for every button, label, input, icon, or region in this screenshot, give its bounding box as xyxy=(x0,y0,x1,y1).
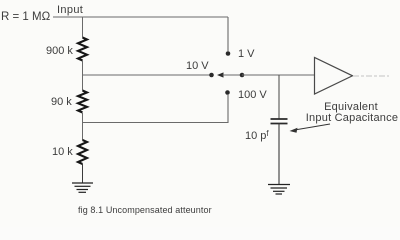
node: 100V switch contact xyxy=(225,90,230,95)
svg-text:10 k: 10 k xyxy=(52,146,73,158)
svg-text:fig 8.1 Uncompensated atteunto: fig 8.1 Uncompensated atteuntor xyxy=(78,205,212,215)
wire: pole to op-amp input xyxy=(242,74,314,76)
svg-text:10 pf: 10 pf xyxy=(245,129,269,142)
wire: 90k bottom to 100V tap junction xyxy=(82,113,84,140)
wire: 900k bottom to 10V tap junction xyxy=(82,61,84,91)
annotation arrow to capacitor xyxy=(293,124,330,130)
svg-text:900 k: 900 k xyxy=(46,45,73,57)
svg-text:90 k: 90 k xyxy=(51,96,72,108)
wire: 10k bottom to ground xyxy=(82,164,84,183)
switch wiper arrow (points to 10V contact) xyxy=(217,72,224,77)
wire: vertical drop to 1V contact xyxy=(227,17,229,51)
svg-text:1 V: 1 V xyxy=(238,48,255,60)
svg-text:10 V: 10 V xyxy=(186,60,209,72)
node: input junction drop to 900k xyxy=(82,17,84,38)
svg-text:R = 1 MΩ: R = 1 MΩ xyxy=(1,11,51,23)
wire: op-amp output (faint dashed) xyxy=(353,75,389,77)
svg-text:Input Capacitance: Input Capacitance xyxy=(306,112,398,124)
wire: 10V tap horizontal to switch contact xyxy=(83,74,211,76)
resistor 10k xyxy=(78,140,87,164)
wire: 100V tap horizontal xyxy=(83,95,229,123)
resistor 900k xyxy=(78,38,87,61)
wire: capacitor bottom to ground xyxy=(278,124,280,185)
node: wiper pole xyxy=(240,73,245,78)
node: 10V switch contact xyxy=(209,73,214,78)
capacitor C (10 pf) xyxy=(271,119,288,124)
wire: branch down to capacitor xyxy=(278,75,280,119)
svg-text:Input: Input xyxy=(57,4,83,16)
ground (left) xyxy=(72,183,93,192)
wire: top input lead from label to 1V branch corner xyxy=(53,16,228,18)
node: 1V switch contact xyxy=(226,51,231,56)
op-amp U1 xyxy=(315,58,353,95)
svg-text:100 V: 100 V xyxy=(238,89,267,101)
ground (right, under capacitor) xyxy=(268,185,290,195)
resistor 90k xyxy=(78,91,87,113)
